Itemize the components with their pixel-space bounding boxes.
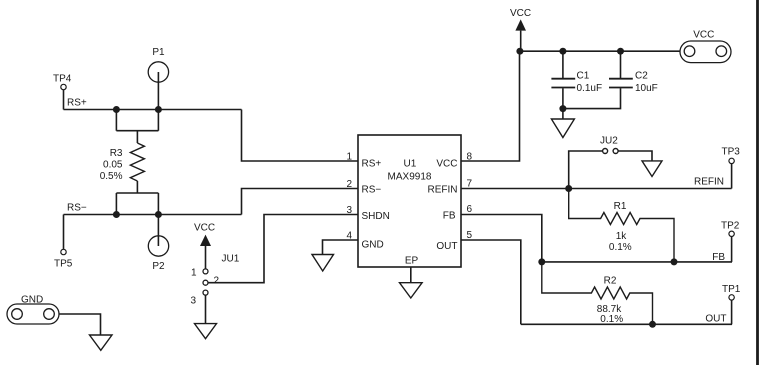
svg-text:2: 2 xyxy=(214,276,220,287)
svg-text:JU1: JU1 xyxy=(222,254,240,265)
wire pin8 to VCC rail xyxy=(461,51,520,161)
svg-text:2: 2 xyxy=(346,179,352,190)
junction FB R1 xyxy=(671,258,678,265)
test point TP4 xyxy=(53,74,72,90)
junction RS- left xyxy=(113,211,120,218)
resistor R2 xyxy=(542,262,653,325)
wire C1 ground stub xyxy=(562,109,564,119)
ground pin4 xyxy=(312,255,334,272)
svg-text:0.1%: 0.1% xyxy=(609,242,632,253)
ground EP xyxy=(400,283,423,298)
wire JU1 pin3 to ground xyxy=(205,295,207,323)
wire EP stub xyxy=(410,267,412,283)
svg-text:REFIN: REFIN xyxy=(428,185,458,196)
wire SHDN pin3 xyxy=(208,215,358,283)
wire JU2 to ground xyxy=(618,151,652,161)
svg-text:GND: GND xyxy=(362,239,384,250)
svg-text:VCC: VCC xyxy=(436,159,457,170)
svg-text:C1: C1 xyxy=(577,71,590,82)
wire FB pin6 xyxy=(461,215,542,262)
wire GND oval to ground xyxy=(59,314,101,335)
junction OUT R2 xyxy=(649,321,656,328)
junction C1 C2 ground xyxy=(559,105,566,112)
svg-text:3: 3 xyxy=(346,205,352,216)
ground JU1 xyxy=(195,324,217,339)
node OUT rail xyxy=(521,314,732,325)
pad P2 xyxy=(148,236,168,272)
junction RS+ left xyxy=(113,106,120,113)
jumper JU2 xyxy=(600,136,618,154)
svg-text:REFIN: REFIN xyxy=(694,177,724,188)
connector GND oval xyxy=(7,295,59,325)
svg-text:EP: EP xyxy=(405,256,419,267)
svg-text:U1: U1 xyxy=(404,159,417,170)
wire GND pin4 xyxy=(323,240,359,255)
svg-text:0.1uF: 0.1uF xyxy=(577,83,603,94)
svg-text:RS+: RS+ xyxy=(67,98,87,109)
svg-text:C2: C2 xyxy=(635,71,648,82)
power VCC (JU1) xyxy=(194,223,215,269)
connector VCC oval xyxy=(680,30,731,63)
svg-text:FB: FB xyxy=(712,252,725,263)
svg-text:0.5%: 0.5% xyxy=(100,171,123,182)
svg-text:R2: R2 xyxy=(604,276,617,287)
wire kelvin bottom box xyxy=(116,181,158,215)
node RS- rail xyxy=(64,203,242,215)
svg-text:FB: FB xyxy=(443,211,456,222)
wire REFIN pin7 xyxy=(461,188,732,190)
op-amp U1 MAX9918 xyxy=(358,135,461,267)
ground JU2 xyxy=(642,161,662,177)
svg-text:3: 3 xyxy=(190,296,196,307)
svg-text:1: 1 xyxy=(346,152,352,163)
node RS+ rail xyxy=(64,98,242,110)
svg-text:TP3: TP3 xyxy=(722,147,741,158)
svg-text:TP4: TP4 xyxy=(53,74,72,85)
svg-text:1k: 1k xyxy=(616,231,628,242)
resistor R3 xyxy=(100,143,145,182)
svg-text:TP1: TP1 xyxy=(722,284,741,295)
junction RS+ right xyxy=(155,106,162,113)
svg-text:P2: P2 xyxy=(152,261,165,272)
svg-text:OUT: OUT xyxy=(705,314,726,325)
ground C1 C2 xyxy=(551,119,574,138)
wire VCC rail xyxy=(520,50,681,52)
pad P1 xyxy=(148,47,168,82)
wire P1 stem xyxy=(157,72,159,110)
capacitor C1 xyxy=(551,51,602,108)
svg-text:RS−: RS− xyxy=(362,185,382,196)
test point TP5 xyxy=(54,215,73,270)
svg-text:TP5: TP5 xyxy=(54,259,73,270)
wire OUT pin5 xyxy=(461,240,521,324)
svg-text:VCC: VCC xyxy=(194,223,215,234)
ground GND oval xyxy=(90,335,113,350)
svg-text:SHDN: SHDN xyxy=(362,211,390,222)
wire TP4 stub xyxy=(63,90,65,110)
capacitor C2 xyxy=(563,51,658,108)
test point TP2 xyxy=(721,220,740,262)
svg-text:1: 1 xyxy=(191,268,197,279)
svg-text:0.05: 0.05 xyxy=(103,160,123,171)
svg-text:0.1%: 0.1% xyxy=(600,314,623,325)
test point TP3 xyxy=(722,147,741,189)
svg-text:P1: P1 xyxy=(152,47,165,58)
wire RS- to pin2 xyxy=(242,189,359,215)
wire JU2 riser xyxy=(569,151,603,189)
svg-text:RS+: RS+ xyxy=(362,159,382,170)
wire RS+ to pin1 xyxy=(242,110,359,162)
junction VCC rail C2 xyxy=(617,48,624,55)
svg-text:10uF: 10uF xyxy=(635,83,658,94)
svg-text:R1: R1 xyxy=(614,201,627,212)
test point TP1 xyxy=(722,284,741,324)
node FB rail xyxy=(542,252,732,263)
resistor R1 xyxy=(569,189,674,262)
junction RS- right xyxy=(155,211,162,218)
svg-text:R3: R3 xyxy=(110,148,123,159)
svg-text:6: 6 xyxy=(467,204,473,215)
svg-text:RS−: RS− xyxy=(67,203,87,214)
junction REFIN JU2 xyxy=(565,185,572,192)
junction FB left xyxy=(538,258,545,265)
wire P2 stem xyxy=(157,215,159,247)
svg-text:JU2: JU2 xyxy=(600,136,618,147)
svg-text:VCC: VCC xyxy=(510,8,531,19)
power VCC (top) xyxy=(510,8,531,51)
svg-text:TP2: TP2 xyxy=(721,220,740,231)
border right edge xyxy=(756,0,759,365)
wire kelvin top box xyxy=(116,110,158,144)
svg-text:OUT: OUT xyxy=(436,241,457,252)
svg-text:VCC: VCC xyxy=(693,30,714,41)
junction VCC rail pin8 xyxy=(516,48,523,55)
svg-text:MAX9918: MAX9918 xyxy=(388,172,432,183)
junction VCC rail C1 xyxy=(559,48,566,55)
jumper JU1 xyxy=(190,254,239,307)
